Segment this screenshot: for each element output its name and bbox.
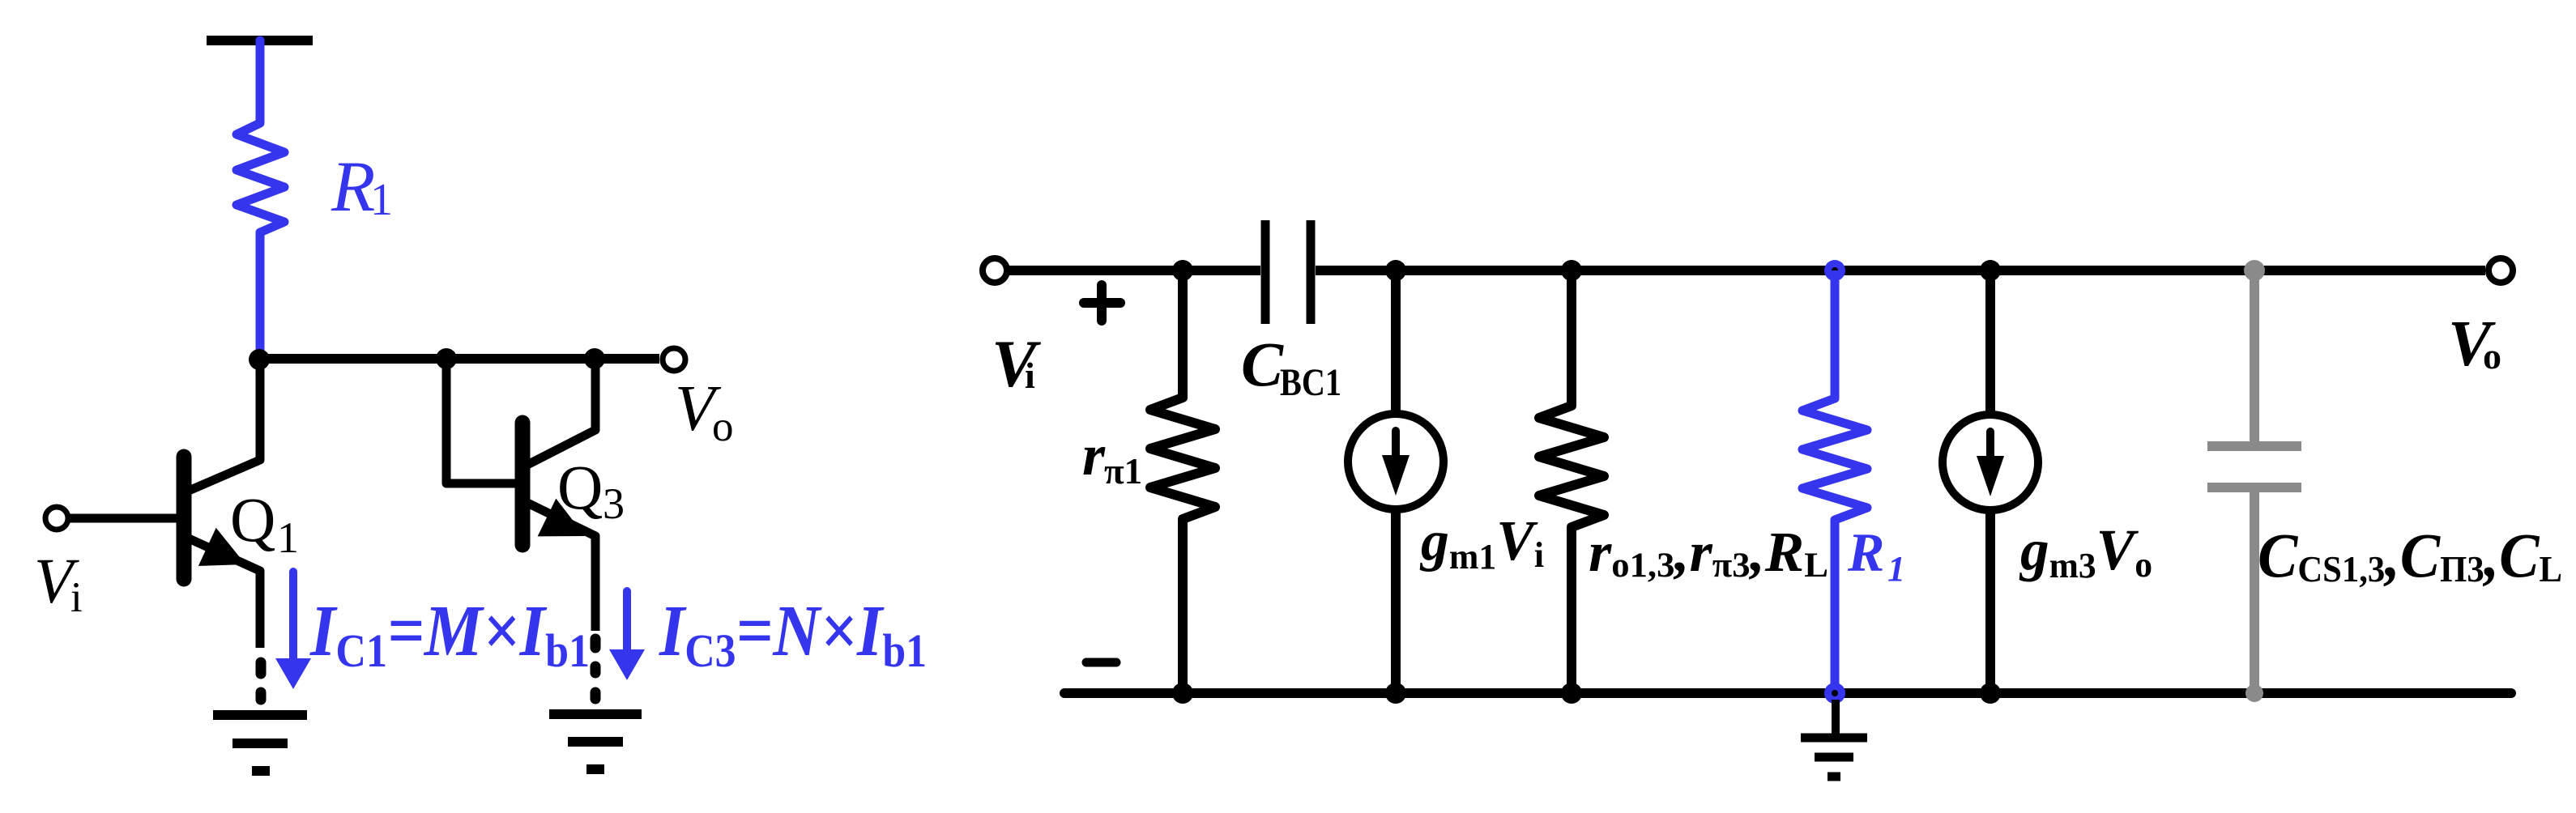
label - polarity — [1086, 658, 1116, 667]
wire top rail right segment — [1316, 266, 2485, 275]
current source gm1Vi — [1348, 414, 1444, 509]
resistor ro1,3 rπ3 RL — [1539, 270, 1604, 693]
resistor R1 (blue) body — [237, 40, 284, 359]
node R1 top (blue) — [1824, 260, 1845, 281]
svg-text:1: 1 — [370, 175, 393, 225]
terminal Vo (right circuit) — [2489, 258, 2513, 283]
current arrow IC1 (blue) — [289, 572, 297, 661]
ground (Q3 emitter) — [549, 714, 642, 769]
node C (Q3 collector junction) — [584, 348, 605, 369]
svg-text:BC1: BC1 — [1280, 361, 1341, 404]
svg-text:o: o — [2483, 335, 2501, 377]
node A (R1/Q1 collector junction) — [249, 349, 270, 370]
node gm1 top — [1385, 260, 1406, 281]
resistor rπ1 — [1150, 270, 1215, 693]
svg-text:π1: π1 — [1104, 451, 1142, 492]
terminal Vi (left circuit) — [45, 507, 68, 530]
node gm3 bottom — [1980, 683, 2001, 704]
node rπ1 bottom — [1172, 683, 1193, 704]
wire Q1 base — [68, 514, 179, 523]
ground (below R1 bottom node) — [1832, 700, 1840, 734]
node rπ1 top — [1172, 260, 1193, 281]
svg-text:1: 1 — [1887, 549, 1905, 589]
svg-text:Q: Q — [557, 452, 603, 522]
transistor Q3 base bar — [515, 423, 531, 545]
svg-text:R: R — [331, 147, 375, 227]
svg-text:1: 1 — [277, 513, 299, 562]
node gm3 top — [1980, 260, 2001, 281]
capacitor CBC1 — [1265, 220, 1311, 324]
svg-text:3: 3 — [603, 479, 625, 528]
resistor R1 (blue, right circuit) — [1802, 270, 1867, 693]
svg-text:C: C — [1241, 329, 1284, 399]
wire Q3 collector — [527, 360, 595, 465]
power rail top bar — [207, 36, 313, 45]
ground (Q1 emitter) — [213, 715, 307, 771]
Q3 emitter arrow — [538, 499, 585, 537]
wire Q1 emitter dashed — [256, 662, 267, 700]
wire gm1 branch — [1391, 270, 1401, 414]
node ro bottom — [1561, 683, 1582, 704]
wire collector rail to Vo — [259, 354, 659, 364]
terminal Vo (left circuit) — [663, 348, 685, 371]
wire Q3 base tap — [446, 364, 515, 483]
svg-text:i: i — [70, 574, 83, 621]
node R1 bottom (blue) — [1824, 683, 1845, 704]
svg-text:Q: Q — [230, 484, 275, 555]
node CL top (gray) — [2244, 260, 2265, 281]
svg-text:o: o — [712, 403, 734, 450]
wire Q1 collector — [189, 360, 260, 491]
node B (Q3 base tap junction) — [436, 348, 457, 369]
current source gm3Vo — [1943, 415, 2038, 510]
node CL bottom (gray) — [2245, 684, 2263, 702]
node gm1 bottom — [1385, 683, 1406, 704]
wire bottom rail — [1064, 688, 2511, 698]
svg-text:R: R — [1847, 521, 1884, 583]
transistor Q1 base bar — [177, 457, 192, 579]
wire Q1 emitter — [189, 538, 260, 648]
wire gm3 branch — [1985, 270, 1995, 415]
label + polarity — [1084, 285, 1120, 321]
svg-text:i: i — [1025, 355, 1035, 396]
wire Q3 emitter — [527, 503, 595, 631]
terminal Vi (right circuit) — [983, 258, 1007, 283]
svg-text:r: r — [1082, 423, 1106, 487]
Q1 emitter arrow — [198, 528, 245, 566]
node ro top — [1561, 260, 1582, 281]
wire top rail left segment — [1009, 266, 1260, 275]
current arrow IC3 (blue) — [623, 591, 631, 652]
capacitor CCS1,3 CΠ3 CL (gray) — [2207, 270, 2301, 693]
wire Q3 emitter dashed — [591, 639, 601, 699]
